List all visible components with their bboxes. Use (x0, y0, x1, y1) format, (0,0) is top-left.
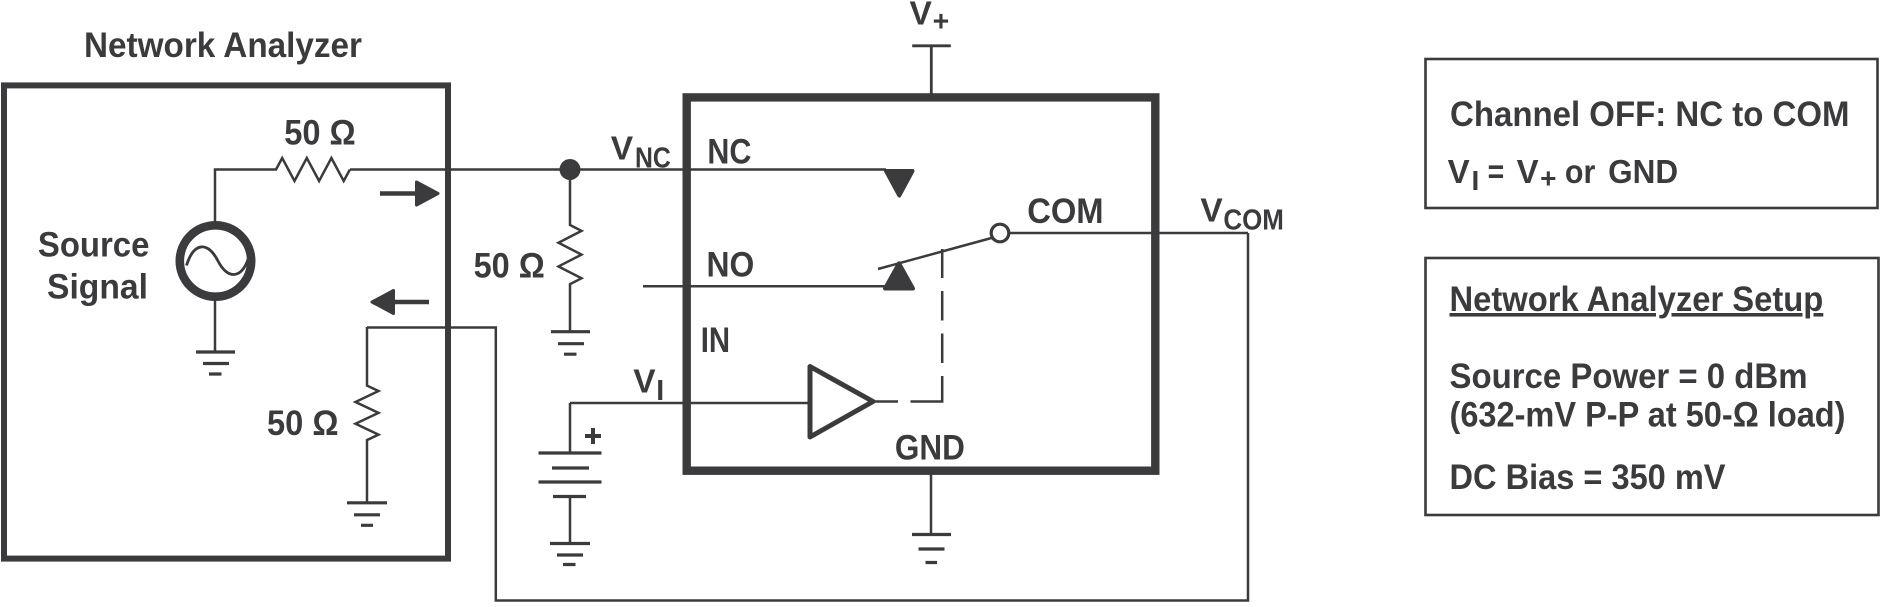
svg-text:I: I (1472, 165, 1480, 196)
GND pin wire (930, 470, 933, 535)
svg-text:DC Bias = 350 mV: DC Bias = 350 mV (1450, 457, 1726, 497)
svg-text:NC: NC (707, 131, 751, 171)
annotation box 1 (1426, 59, 1878, 208)
arrow left reflected (392, 300, 429, 305)
wire return path lower left (367, 233, 1248, 601)
wire battery to ground (569, 497, 572, 544)
label plus battery (585, 428, 601, 444)
NO contact triangle (885, 263, 913, 288)
NC contact triangle (886, 171, 913, 196)
COM pole circle (991, 224, 1009, 242)
resistor R3 50 ohm vertical (559, 170, 582, 332)
svg-text:Network Analyzer Setup: Network Analyzer Setup (1450, 279, 1824, 319)
battery VI bias (539, 453, 602, 497)
svg-text:V: V (1200, 193, 1223, 230)
ground GND (912, 535, 951, 563)
svg-text:V: V (1517, 153, 1539, 190)
arrow right incident (380, 191, 418, 196)
buffer driver (810, 367, 873, 438)
svg-text:NC: NC (635, 143, 671, 175)
svg-text:50 Ω: 50 Ω (284, 112, 356, 152)
resistor R2 50 ohm vertical (356, 327, 379, 503)
svg-text:IN: IN (701, 320, 730, 360)
ground source (214, 301, 217, 353)
ground R2 (347, 503, 387, 526)
svg-text:+: + (933, 6, 950, 38)
svg-text:Source: Source (38, 225, 149, 265)
svg-text:COM: COM (1223, 205, 1284, 237)
svg-text:GND: GND (1608, 153, 1678, 190)
svg-text:50 Ω: 50 Ω (474, 246, 545, 286)
AC source V1 (180, 225, 251, 296)
svg-text:V: V (633, 364, 656, 401)
junction node VNC (560, 159, 581, 180)
switch IC box (687, 97, 1156, 470)
svg-text:or: or (1565, 153, 1596, 190)
svg-text:=: = (1488, 153, 1505, 190)
svg-text:50 Ω: 50 Ω (267, 403, 339, 443)
svg-text:Source Power = 0 dBm: Source Power = 0 dBm (1450, 356, 1808, 396)
network analyzer box (4, 85, 448, 558)
svg-text:GND: GND (895, 427, 965, 467)
COM wire (1009, 232, 1248, 235)
svg-text:V: V (910, 0, 933, 33)
svg-text:V: V (611, 131, 634, 168)
dashed control link (873, 249, 942, 402)
svg-text:V: V (1448, 153, 1470, 190)
svg-text:Network Analyzer: Network Analyzer (84, 25, 362, 65)
svg-text:+: + (1540, 162, 1556, 193)
svg-text:NO: NO (707, 245, 755, 285)
switch lever (878, 238, 992, 269)
svg-text:Channel OFF: NC to COM: Channel OFF: NC to COM (1450, 94, 1850, 134)
wire R1 to NC pin (350, 168, 886, 171)
svg-text:Signal: Signal (47, 267, 148, 307)
V+ rail (912, 46, 951, 97)
ground battery (550, 544, 590, 565)
NO wire (643, 285, 886, 288)
annotation box 2 (1426, 258, 1879, 515)
svg-text:(632-mV P-P at 50-Ω load): (632-mV P-P at 50-Ω load) (1450, 395, 1846, 435)
VI wire (570, 403, 810, 453)
wire source top to resistor (215, 170, 277, 222)
svg-text:COM: COM (1027, 191, 1103, 231)
resistor R1 50 ohm horizontal (276, 158, 350, 181)
ground R3 (551, 332, 590, 355)
